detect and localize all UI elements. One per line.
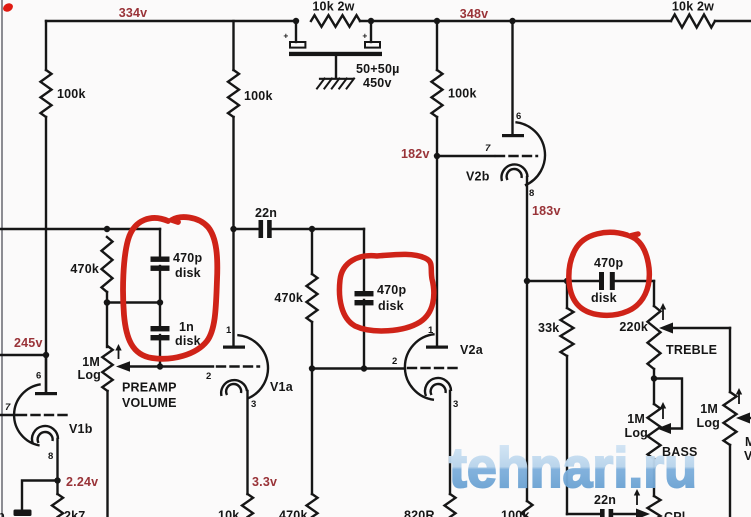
wire V1b grid stub (0, 414, 16, 416)
plus mark right (362, 31, 367, 41)
wire V1b plate stem (45, 355, 47, 392)
wire V1a grid dashed (217, 365, 259, 367)
wire V2b cathode down (526, 177, 528, 501)
wire 470p stub bottom (363, 300, 365, 369)
wire 100k to plate node (232, 117, 234, 229)
svg-text:7: 7 (5, 402, 11, 413)
svg-text:6: 6 (516, 111, 521, 122)
svg-text:2: 2 (392, 356, 397, 367)
svg-text:470p: 470p (377, 283, 406, 297)
wiper arrow right pot (736, 413, 751, 424)
wire V2b plate stem (511, 21, 513, 134)
svg-text:1: 1 (428, 325, 434, 336)
svg-text:PREAMP: PREAMP (122, 381, 177, 395)
wire tone top right (615, 280, 654, 282)
capacitor 470p (treble) (599, 272, 615, 290)
junction rail/V2b plate (509, 18, 515, 24)
plus mark left (283, 31, 288, 41)
resistor 820R cathode (445, 494, 456, 517)
pin 3 V1a (251, 399, 256, 410)
label 470k mid (274, 291, 303, 305)
triode V2a cathode (425, 378, 451, 396)
junction cap mid right (157, 299, 163, 305)
junction treble bottom (651, 375, 657, 381)
svg-text:100k: 100k (501, 509, 530, 517)
svg-text:1M: 1M (700, 402, 718, 416)
svg-text:182v: 182v (401, 147, 430, 161)
label 1M Log bass (624, 412, 648, 440)
svg-text:10k: 10k (218, 509, 239, 517)
resistor 470k (mid) (307, 274, 318, 322)
pin 6 V2b (516, 111, 521, 122)
svg-text:470p: 470p (594, 256, 623, 270)
triode V2a plate (426, 346, 448, 349)
wiper arrow treble (659, 323, 673, 334)
capacitor 22n (bottom) (600, 509, 613, 517)
svg-text:8: 8 (529, 188, 534, 199)
label Vo cut (744, 449, 751, 463)
junction 470k2 top (309, 226, 315, 232)
wire rail drop 348 (436, 21, 438, 70)
svg-text:tehnari.ru: tehnari.ru (449, 436, 697, 500)
wire B+ rail top (46, 20, 296, 22)
svg-text:V2a: V2a (460, 343, 484, 357)
junction 470p bottom (361, 365, 367, 371)
wire 100k to 182v node (436, 117, 438, 156)
junction tone node (524, 278, 530, 284)
wire 33k corner (567, 513, 599, 515)
label V1a (270, 380, 294, 394)
wire V2a cathode down (449, 391, 451, 494)
label BASS (662, 445, 698, 459)
pot bass up arrow (660, 402, 666, 419)
label disk treble (591, 291, 617, 305)
ground bar V1b (14, 510, 32, 517)
wire 22n to cut pot (613, 513, 637, 515)
resistor 100k (left) (41, 70, 52, 117)
label 182v (401, 147, 430, 161)
wire treble wiper down (729, 328, 731, 392)
svg-text:V1a: V1a (270, 380, 294, 394)
wire plate node to V1a (232, 229, 234, 345)
resistor 10k 2w (right) (671, 15, 715, 28)
capacitor 50+50u right plate (365, 42, 380, 48)
wire pot volume down (106, 391, 108, 517)
svg-text:820R: 820R (404, 509, 435, 517)
label 33k (538, 321, 559, 335)
wire V2b grid dashed (496, 155, 537, 157)
svg-text:22n: 22n (255, 206, 277, 220)
label 470p treble (594, 256, 623, 270)
triode V2a envelope (405, 334, 435, 400)
resistor 470k (left) (102, 237, 113, 292)
svg-text:470p: 470p (173, 251, 202, 265)
pin 8 V1b (48, 451, 53, 462)
label 470p disk C3 (377, 283, 406, 313)
junction rail/cap left (293, 18, 299, 24)
wire between caps (159, 266, 161, 326)
label 22n top (255, 206, 277, 220)
label 1M Log right (696, 402, 720, 430)
svg-text:1n: 1n (179, 320, 194, 334)
junction wiper node (157, 363, 163, 369)
wire 33k down (566, 281, 568, 514)
svg-text:1: 1 (226, 325, 232, 336)
label cut pot (664, 510, 685, 517)
svg-text:3: 3 (453, 399, 458, 410)
triode V1b envelope (14, 384, 41, 445)
red pen mark top-left corner (2, 2, 15, 14)
wire rail drop 2 (232, 21, 234, 70)
wire V1a cathode down (246, 391, 248, 494)
svg-text:470k: 470k (279, 509, 308, 517)
pin 1 V2a (428, 325, 434, 336)
pot treble up arrow (660, 303, 666, 320)
resistor 100k (bottom) (522, 501, 533, 517)
svg-text:50+50µ: 50+50µ (356, 62, 400, 76)
svg-text:TREBLE: TREBLE (666, 343, 717, 357)
svg-text:disk: disk (175, 334, 201, 348)
svg-text:3: 3 (251, 399, 256, 410)
svg-text:100k: 100k (448, 87, 477, 101)
potentiometer 1M Log right (724, 392, 737, 445)
wire input bus y229 (0, 228, 160, 230)
wire 100k to V1b plate (45, 117, 47, 392)
potentiometer 220k treble (648, 306, 661, 369)
wire V2b grid (437, 155, 494, 157)
label V2a (460, 343, 484, 357)
pin 7 V2b (485, 143, 491, 154)
wire cap right stem (370, 21, 372, 42)
label 820R (404, 509, 435, 517)
red circle around 470p disk C3 (339, 254, 433, 331)
pin 1 V1a (226, 325, 232, 336)
wire rail mid (360, 20, 671, 22)
pin 6 V1b (36, 371, 41, 382)
svg-text:2.24v: 2.24v (66, 475, 98, 489)
svg-text:3.3v: 3.3v (252, 475, 277, 489)
svg-text:+: + (283, 31, 288, 41)
pin 7 V1b (5, 402, 11, 413)
label 470p disk C1 (173, 251, 202, 280)
svg-text:348v: 348v (460, 7, 489, 21)
label 10k 2w right (672, 0, 714, 14)
triode V1a cathode (221, 380, 247, 396)
label M cut (745, 435, 751, 449)
triode V1b plate (35, 392, 57, 395)
label V2b (466, 170, 490, 184)
wire 470p stub top (363, 229, 365, 291)
wire V2a grid (312, 367, 404, 369)
wire 22n right (272, 228, 365, 230)
svg-text:V1b: V1b (69, 422, 93, 436)
wiper arrow cut pot (636, 509, 650, 517)
triode V1a plate (223, 346, 245, 349)
red circle around 470p/1n caps (123, 217, 217, 359)
svg-text:V2b: V2b (466, 170, 490, 184)
pin 2 V2a (392, 356, 397, 367)
svg-text:470k: 470k (274, 291, 303, 305)
svg-text:VOLUME: VOLUME (122, 396, 177, 410)
wire 470k to pot (106, 292, 108, 347)
svg-text:245v: 245v (14, 336, 43, 350)
wire to ground V1b (22, 481, 58, 511)
junction 33k top (564, 278, 570, 284)
svg-text:Log: Log (696, 416, 720, 430)
wire V2a grid dashed (408, 367, 461, 369)
label 1M Log volume (77, 355, 101, 382)
junction rail/cap right (368, 18, 374, 24)
label 22n bottom (594, 493, 616, 507)
resistor 10k cathode (242, 494, 253, 517)
wire V1b cathode down (56, 439, 58, 494)
pot right up arrow (736, 388, 742, 404)
svg-text:334v: 334v (119, 6, 148, 20)
wire treble wiper (673, 327, 730, 329)
label 50+50u (356, 62, 400, 76)
label V1b (69, 422, 93, 436)
svg-text:+: + (362, 31, 367, 41)
label 100k mid (244, 89, 273, 103)
ground symbol (317, 79, 354, 89)
label 10k 2w left (312, 0, 354, 14)
pin 2 V1a (206, 371, 211, 382)
svg-text:2: 2 (206, 371, 211, 382)
wire rail right end (715, 20, 751, 22)
potentiometer cut (bottom) (648, 496, 661, 517)
capacitor 50+50u left plate (290, 42, 305, 48)
label 100k bottom (501, 509, 530, 517)
label 2k7 (64, 509, 85, 517)
resistor 100k (mid) (228, 70, 239, 117)
svg-text:1M: 1M (82, 355, 100, 369)
svg-text:10k 2w: 10k 2w (312, 0, 354, 14)
pin 3 V2a (453, 399, 458, 410)
resistor 470k (bottom) (307, 494, 318, 517)
wire cap mid link (107, 301, 160, 303)
svg-text:disk: disk (378, 299, 404, 313)
label 2.24v (66, 475, 98, 489)
svg-text:disk: disk (591, 291, 617, 305)
wire 470p to treble (653, 281, 655, 306)
wire cap chain top stub (159, 229, 161, 256)
wire 182v to V2a plate (436, 156, 438, 345)
label 470k left (70, 262, 99, 276)
red circle around 470p treble (569, 232, 650, 315)
pot cut up arrow (634, 489, 640, 505)
junction 245v node (43, 352, 49, 358)
pin 8 V2b (529, 188, 534, 199)
capacitor 470p disk (C3) (355, 291, 374, 305)
svg-text:1M: 1M (627, 412, 645, 426)
capacitor 470p disk (C1) (151, 257, 170, 271)
svg-text:470k: 470k (70, 262, 99, 276)
wiper arrow bass (657, 423, 671, 434)
triode V2b plate (502, 134, 524, 137)
triode V2b cathode (502, 164, 528, 181)
letter fragment bottom-left (0, 509, 5, 517)
label 334v (119, 6, 148, 20)
wire 245v stub (0, 354, 46, 356)
svg-text:CPl: CPl (664, 510, 685, 517)
svg-text:6: 6 (36, 371, 41, 382)
pot volume up arrow (115, 344, 121, 359)
svg-text:220k: 220k (619, 320, 648, 334)
label PREAMP VOLUME (122, 381, 177, 411)
wire cap chain bottom stub (159, 335, 161, 367)
wire 470k2 down (311, 369, 313, 495)
label 100k left (57, 87, 86, 101)
wire V1b grid dashed (18, 414, 68, 416)
junction plate node V1a (230, 226, 236, 232)
wire 22n left (234, 228, 259, 230)
junction 470k bottom (104, 299, 110, 305)
label 100k right (448, 87, 477, 101)
svg-text:183v: 183v (532, 204, 561, 218)
resistor 10k 2w (left) (311, 15, 360, 27)
junction 182v node (434, 153, 440, 159)
triode V2b envelope (515, 122, 545, 185)
wire 470k2 leads (311, 229, 313, 369)
wire tone top (527, 280, 598, 282)
label 220k (619, 320, 648, 334)
capacitor 22n (top) (259, 220, 272, 238)
svg-text:8: 8 (48, 451, 53, 462)
wiper arrow volume (116, 361, 130, 371)
label TREBLE (666, 343, 717, 357)
triode V1a envelope (237, 335, 268, 399)
wire treble to bass (653, 369, 655, 404)
svg-text:450v: 450v (363, 76, 392, 90)
label 348v (460, 7, 489, 21)
wire right pot down (729, 445, 731, 517)
resistor 33k (561, 308, 574, 356)
label 3.3v (252, 475, 277, 489)
junction cathode V1b (54, 477, 60, 483)
junction rail 348v (434, 18, 440, 24)
left image border (1, 0, 3, 517)
svg-text:7: 7 (485, 143, 491, 154)
svg-text:33k: 33k (538, 321, 559, 335)
resistor 100k (right) (432, 70, 443, 117)
capacitor 50+50u common bar (289, 52, 382, 56)
svg-text:disk: disk (175, 266, 201, 280)
label 10k bottom (218, 509, 239, 517)
resistor 2k7 (52, 494, 63, 517)
svg-text:M: M (745, 435, 751, 449)
wire bass wiper jog (654, 379, 682, 429)
wire wiper to grid (130, 365, 213, 367)
label 245v (14, 336, 43, 350)
wire bass down (653, 459, 655, 496)
svg-text:100k: 100k (57, 87, 86, 101)
svg-text:Log: Log (77, 368, 101, 382)
svg-text:b: b (0, 509, 5, 517)
capacitor 1n disk (C2) (151, 326, 170, 340)
wire cap to ground (335, 56, 337, 78)
wire cap left stem (295, 21, 297, 42)
triode V1b cathode (32, 426, 58, 444)
potentiometer 1M Log volume (102, 346, 112, 391)
wire rail left drop (45, 21, 47, 70)
potentiometer 1M bass (648, 404, 661, 459)
label 1n disk (175, 320, 201, 348)
svg-text:Vo: Vo (744, 449, 751, 463)
svg-text:100k: 100k (244, 89, 273, 103)
junction W1/470k top (104, 226, 110, 232)
svg-text:2k7: 2k7 (64, 509, 85, 517)
label 183v (532, 204, 561, 218)
label 470k bottom (279, 509, 308, 517)
label 450v (363, 76, 392, 90)
svg-text:10k 2w: 10k 2w (672, 0, 714, 14)
watermark tehnari.ru (449, 436, 697, 500)
junction V2a grid node (309, 365, 315, 371)
junction cap mid left (104, 299, 110, 305)
